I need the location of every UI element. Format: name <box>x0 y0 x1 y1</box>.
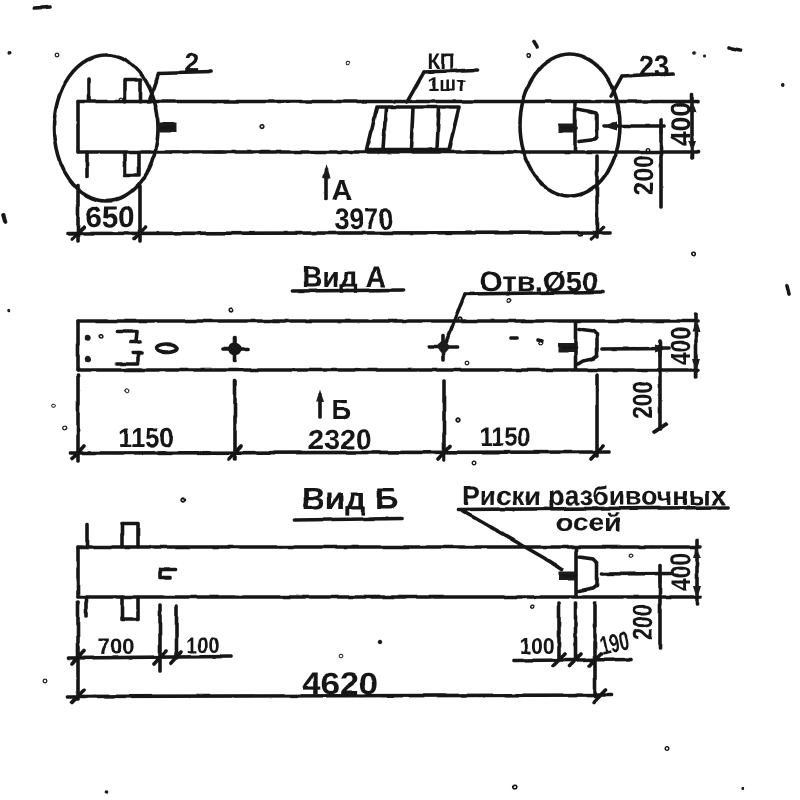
svg-text:700: 700 <box>98 634 135 659</box>
svg-text:200: 200 <box>627 381 658 419</box>
svg-text:1шт: 1шт <box>428 74 466 96</box>
svg-text:3970: 3970 <box>335 203 393 236</box>
svg-text:190: 190 <box>597 625 632 660</box>
svg-text:Б: Б <box>331 394 351 425</box>
svg-text:1150: 1150 <box>119 422 174 453</box>
svg-text:4620: 4620 <box>302 666 378 701</box>
svg-text:400: 400 <box>665 102 696 146</box>
svg-text:200: 200 <box>627 604 658 640</box>
svg-text:400: 400 <box>665 553 696 591</box>
svg-text:2320: 2320 <box>308 424 372 455</box>
svg-text:200: 200 <box>628 155 659 195</box>
svg-text:Вид Б: Вид Б <box>302 481 399 516</box>
svg-text:650: 650 <box>86 201 135 234</box>
svg-text:осей: осей <box>556 509 622 537</box>
svg-text:1150: 1150 <box>480 422 530 452</box>
svg-text:А: А <box>332 175 353 207</box>
svg-text:23: 23 <box>639 50 669 83</box>
svg-text:100: 100 <box>520 633 555 659</box>
svg-text:400: 400 <box>665 327 696 365</box>
svg-text:100: 100 <box>187 633 220 658</box>
